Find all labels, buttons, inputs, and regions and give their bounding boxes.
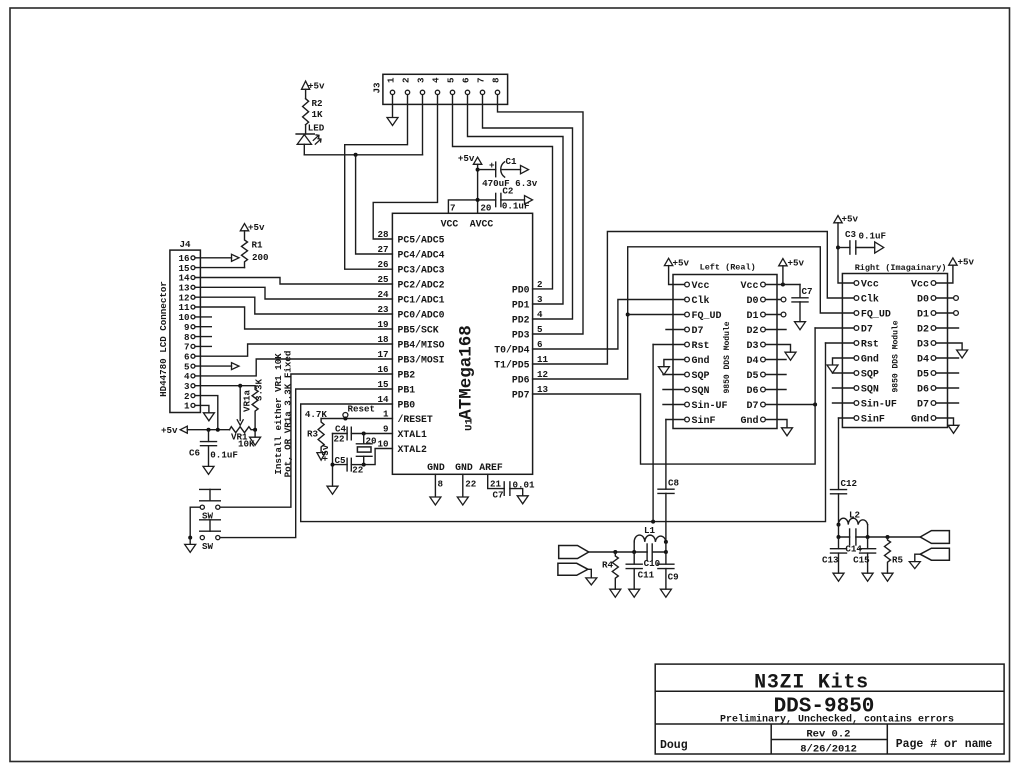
wire J3 pin1 to ground [392,95,394,117]
svg-text:22: 22 [333,434,344,445]
svg-text:D0: D0 [746,296,758,307]
svg-text:4: 4 [537,309,543,320]
svg-text:SQP: SQP [692,371,710,382]
node C6 tap [207,428,211,432]
svg-text:9850 DDS Module: 9850 DDS Module [892,320,901,392]
svg-text:PB4/MISO: PB4/MISO [398,340,445,351]
potentiometer VR1 10K body [230,427,256,433]
wire J4 pin1 to ground [195,405,209,412]
stub U2 D4 [765,359,786,361]
wire R2 bottom to LED [304,125,305,155]
svg-text:Gnd: Gnd [740,415,758,427]
wire U3 D3 to ground [936,343,962,350]
+5v supply at U2 Vcc right [782,266,784,285]
svg-text:C13: C13 [822,555,839,566]
wire L1 legs [634,542,666,552]
wire U3 SinF pin [839,417,855,419]
svg-text:Sin-UF: Sin-UF [861,399,897,411]
svg-text:+5v: +5v [308,81,325,92]
resistor VR1a 3.3K [252,386,258,430]
svg-text:SQP: SQP [861,370,879,381]
+5v rail wire [187,429,229,431]
svg-text:8: 8 [491,77,502,83]
svg-text:Rev 0.2: Rev 0.2 [806,729,850,741]
svg-text:PB0: PB0 [398,400,416,411]
svg-text:Clk: Clk [692,295,710,307]
J4 pin circles [191,256,195,408]
svg-text:27: 27 [377,244,388,255]
crystal 20 [356,434,372,465]
no-connect U2 D1 [765,314,781,316]
VR1 wiper arrow down [239,386,241,421]
J3 pin numbers 1-8 [386,77,502,83]
wire SW1 to ground bus [190,507,200,537]
wire U3 SinF down to C12 [838,418,840,489]
svg-text:8/26/2012: 8/26/2012 [800,744,857,756]
ground at U2 Gnd [658,367,669,375]
capacitor C7 0.01 at AREF [493,480,536,501]
wire U2 Gnd to ground [664,360,685,367]
svg-text:Sin-UF: Sin-UF [692,400,728,412]
wire T0/PD4 to U2 Clk [533,300,685,350]
capacitor C12 [831,478,858,494]
svg-text:Preliminary, Unchecked, contai: Preliminary, Unchecked, contains errors [720,714,954,726]
node C3 tap [836,246,840,250]
wire J4 pin2 to +5v rail [195,396,218,430]
ground at J4 pin1 [203,413,214,421]
switch SW2 [200,520,221,552]
wire J4 pin16 to R1 wiper [195,257,232,259]
svg-text:R3: R3 [307,429,319,440]
output connector tag 1 [559,546,589,559]
U3 right pin circles [931,281,936,421]
stub U3 SQP [833,372,855,374]
svg-text:D0: D0 [917,295,929,306]
9850 DDS Module U2 Left (Real) [673,275,777,429]
wire U2 D7 to data riser [765,404,815,406]
wire J3 pin7 to PD2 [483,95,573,319]
svg-text:SQN: SQN [692,386,710,397]
svg-text:PB2: PB2 [398,370,416,381]
wire node to C1 [478,169,496,171]
wire J4 pin4 to PB3 [195,359,392,376]
capacitor C15 [853,537,876,573]
svg-text:T1/PD5: T1/PD5 [494,360,529,371]
wire J4 pin6 to PB4 [195,344,392,356]
svg-text:1: 1 [184,401,190,412]
svg-text:D7: D7 [746,401,758,412]
node U2 FQ_UD tap [626,313,630,317]
svg-text:C11: C11 [638,570,655,581]
stub U2 D2 [765,329,786,331]
svg-text:5: 5 [446,77,457,83]
svg-text:Gnd: Gnd [911,414,929,426]
stub J4 pin8 [195,336,211,338]
node switch ground junction [188,536,192,540]
wire U3 Rst pin [826,342,855,344]
svg-text:0.1uF: 0.1uF [502,201,530,212]
svg-text:XTAL2: XTAL2 [398,444,428,455]
stub U3 Sin-UF [833,402,855,404]
capacitor C3 0.1uF [838,229,886,254]
ATMega right pin numbers [537,279,549,395]
node LED junction [354,153,358,157]
svg-text:PB5/SCK: PB5/SCK [398,325,439,336]
svg-text:Vcc: Vcc [911,280,929,291]
svg-text:GND: GND [455,462,473,473]
ground at AREF cap [517,496,528,504]
svg-text:D1: D1 [917,310,929,321]
switch SW1 [200,489,221,521]
svg-text:7: 7 [476,77,487,83]
wire +5v to U2 Vcc [669,266,685,285]
svg-text:26: 26 [377,259,388,270]
wire J3 pin4 to PC5 [373,95,437,239]
svg-text:C7: C7 [802,286,813,297]
svg-text:PB3/MOSI: PB3/MOSI [398,355,445,366]
svg-text:20: 20 [480,203,491,214]
ground arrow right of C3 [875,242,884,253]
wire PB0 reset bus to U3 Rst [301,343,826,522]
wire XTAL2 [364,449,393,465]
capacitor C4 22 on XTAL1 [351,433,392,435]
wire /RESET to R3 [321,418,392,420]
wire PB1 to switch SW2 [220,389,393,538]
stub U3 D2 [936,327,959,329]
wire J4 pin12 to PC0 [195,297,392,314]
svg-text:SinF: SinF [861,414,885,426]
svg-text:N3ZI Kits: N3ZI Kits [754,672,869,695]
U3 left pin circles [854,281,859,421]
capacitor C6 0.1uF [189,430,238,466]
svg-text:C12: C12 [841,478,858,489]
svg-text:Vcc: Vcc [861,280,879,291]
capacitor C14 [845,529,862,555]
ground below R5 [882,573,893,581]
svg-text:+5v: +5v [248,222,265,233]
svg-text:L2: L2 [849,510,860,521]
ground below C15 [862,573,873,581]
node U2 Rst tap on bus [651,520,655,524]
svg-text:20: 20 [366,436,377,447]
svg-text:L1: L1 [644,525,656,536]
stub U3 D7 [936,402,959,404]
+5v supply feeding U3 Vcc left and C3 [834,216,842,223]
svg-text:C7: C7 [493,490,504,501]
ground arrow right of C2 [525,196,533,205]
svg-text:SinF: SinF [692,415,716,427]
stub U2 D7 left [666,329,685,331]
svg-text:3: 3 [416,77,427,83]
stub U2 SQN [663,389,685,391]
svg-text:Reset: Reset [348,404,376,415]
wire PD7 to D7 bus [533,328,816,464]
ATMega left pin labels [398,235,445,456]
svg-text:SW: SW [202,541,214,552]
svg-text:3: 3 [537,294,543,305]
svg-text:PD6: PD6 [512,375,530,386]
stub U2 D5 [765,374,786,376]
svg-text:J3: J3 [372,82,383,94]
ground below J3 pin1 [387,118,398,126]
svg-text:/RESET: /RESET [398,414,433,425]
svg-text:D6: D6 [917,385,929,396]
svg-text:D5: D5 [746,371,758,382]
ground below C13 [833,573,844,581]
svg-text:R2: R2 [312,98,323,109]
node XTAL1 crystal tap [362,432,366,436]
ground below VR1a [254,430,256,437]
wire U2 Rst pin [653,344,685,346]
wire U2 Gnd right to ground [765,420,787,428]
ATMega left pin numbers [377,229,389,450]
ground arrow right of C1 [521,165,529,173]
pin 22 GND stub [462,474,464,496]
svg-text:GND: GND [427,462,445,473]
svg-text:PD7: PD7 [512,390,530,401]
U3 left pin labels [861,280,897,426]
svg-text:C1: C1 [506,156,518,167]
svg-text:T0/PD4: T0/PD4 [494,345,529,356]
U2 left pin labels [692,281,728,427]
stub U3 D4 [936,357,959,359]
U3 right pin labels [911,280,929,426]
svg-text:AREF: AREF [479,462,503,473]
J3 pin circles 1-8 [390,90,499,94]
output connector tag 4 [920,548,949,560]
svg-text:C6: C6 [189,448,200,459]
wire J4 pin15 to R1 bottom [195,267,245,269]
svg-text:+5v: +5v [842,214,859,225]
svg-text:PC3/ADC3: PC3/ADC3 [398,265,445,276]
node C1 tap [476,168,480,172]
node VR1 wiper tap [238,384,242,388]
wire +5v to R2 [305,89,307,98]
resistor R5 [885,537,891,573]
wire C12 to L2 left node [838,494,840,525]
svg-text:D2: D2 [746,326,758,337]
svg-text:PD3: PD3 [512,330,530,341]
svg-text:Pot, OR VR1a 3.3K Fixed: Pot, OR VR1a 3.3K Fixed [283,351,294,478]
+5v supply above C1 [473,157,481,164]
ground below C6 [203,466,214,474]
ground below C7 [795,322,806,330]
inductor L2 [839,510,868,525]
ground below switches [189,538,191,545]
svg-text:+5v: +5v [958,257,975,268]
svg-text:PC5/ADC5: PC5/ADC5 [398,235,445,246]
wire U2 SinF pin [666,419,685,421]
svg-text:10K: 10K [238,439,255,450]
svg-text:0.1uF: 0.1uF [859,231,887,242]
svg-text:1K: 1K [312,109,324,120]
svg-text:Gnd: Gnd [692,355,710,367]
svg-text:VR1a: VR1a [242,389,253,412]
wire J4 pin14 to PC2 [195,278,392,285]
svg-text:0.01: 0.01 [513,480,536,491]
IC U1 ATMega168 [392,213,532,474]
ground below R4 [610,589,621,597]
svg-text:22: 22 [465,479,476,490]
wire PD6 to U3 FQ_UD [533,247,854,379]
resistor R2 [303,99,309,125]
svg-text:U1: U1 [464,418,476,431]
node C13 [837,535,841,539]
no-connect U3 D1 [936,312,954,314]
ground rail for C4 C5 [332,434,334,487]
capacitor C8 [658,478,680,494]
svg-text:28: 28 [377,229,389,240]
svg-text:3.3K: 3.3K [254,378,265,401]
wire J4 pin11 to PB5 [195,307,392,329]
svg-text:Doug: Doug [660,739,688,752]
wire C8 to L1 right node [665,493,667,542]
stub U3 SQN [833,387,855,389]
svg-text:D4: D4 [746,356,758,367]
svg-text:PD1: PD1 [512,300,530,311]
svg-text:LED: LED [308,123,325,134]
svg-text:21: 21 [490,479,502,490]
J4 pin numbers 16..1 [178,253,190,412]
stub J4 pin10 [195,316,211,318]
wire U2 Vcc right to +5v and C7 [765,284,800,286]
svg-text:Clk: Clk [861,294,879,306]
svg-text:Rst: Rst [692,341,710,352]
wire U3 D7 pin [815,327,854,329]
svg-text:4.7K: 4.7K [305,409,328,420]
wire U3 Vcc right to +5v [936,265,953,283]
svg-text:4: 4 [431,77,442,83]
svg-text:5: 5 [537,324,543,335]
capacitor C1 470uF 6.3v polarized [482,156,538,189]
svg-text:PD2: PD2 [512,315,530,326]
resistor R4 [612,552,618,589]
connector J3 [383,74,508,104]
ground at pin 8 [430,497,441,505]
svg-text:PC0/ADC0: PC0/ADC0 [398,310,445,321]
+5v supply U2 left [664,258,672,265]
U2 right pin labels [740,281,758,427]
node L1 right [664,540,668,544]
svg-text:+5v: +5v [161,425,178,436]
svg-text:C8: C8 [668,478,680,489]
wire U3 Gnd to ground [833,358,855,365]
wire U2 SinF down to C8 [665,420,667,490]
svg-text:VCC: VCC [441,219,459,230]
wire tap to U2 FQ_UD [628,314,685,316]
capacitor C11 [626,552,654,589]
ATMega right pin labels [494,285,529,401]
svg-text:D7: D7 [917,400,929,411]
svg-text:C3: C3 [845,229,857,240]
svg-text:FQ_UD: FQ_UD [692,311,722,322]
svg-text:D1: D1 [746,311,758,322]
stub U3 D6 [936,387,959,389]
wire L2 legs [839,525,868,537]
svg-text:Right (Imagainary): Right (Imagainary) [855,263,947,273]
node XTAL2 crystal tap [362,463,366,467]
svg-text:SQN: SQN [861,385,879,396]
no-connect U3 D0 [936,297,954,299]
svg-text:D3: D3 [746,341,758,352]
node A C11 [632,550,636,554]
wire J4 pin3 to VR1 wiper node and VR1a [195,385,255,387]
stub U2 D6 [765,389,786,391]
stub J4 pin7 [195,345,211,347]
svg-text:PC4/ADC4: PC4/ADC4 [398,250,445,261]
svg-text:0.1uF: 0.1uF [210,450,238,461]
connector J4 HD44780 LCD [170,250,201,412]
svg-text:Page # or name: Page # or name [896,738,993,751]
svg-text:PC2/ADC2: PC2/ADC2 [398,280,445,291]
capacitor C10 [644,544,661,569]
svg-text:D4: D4 [917,355,929,366]
U2 right pin circles [761,282,766,422]
pin 21 AREF stub [488,474,505,488]
svg-text:FQ_UD: FQ_UD [861,310,891,321]
inductor L1 [634,525,666,542]
svg-text:C5: C5 [334,455,346,466]
svg-text:D7: D7 [692,326,704,337]
node J4 pin2 on rail [216,428,220,432]
svg-text:ATMega168: ATMega168 [457,325,477,420]
wire T1/PD5 to U3 Clk [533,232,854,365]
wire output line right [839,536,921,538]
node R4 tap [613,550,617,554]
svg-text:C15: C15 [853,555,870,566]
R1 wiper arrow [232,254,240,261]
wire J4 pin13 to PC1 [195,287,392,299]
U2 left pin circles [685,282,690,422]
svg-text:C9: C9 [668,572,679,583]
capacitor C5 22 on XTAL2 [333,455,364,476]
wire J3 pin2 to PC3 [345,95,408,270]
ground below C11 [629,589,640,597]
stub J4 pin9 [195,326,211,328]
wire J3 pin5 to PD0 [453,95,553,289]
svg-text:Vcc: Vcc [740,281,758,292]
svg-text:8: 8 [438,479,444,490]
svg-text:PC1/ADC1: PC1/ADC1 [398,295,445,306]
svg-text:PD0: PD0 [512,285,530,296]
wire PB2 to switch SW1 [220,374,393,507]
capacitor C2 0.1uF [496,186,530,212]
svg-text:9850 DDS Module: 9850 DDS Module [723,321,732,393]
stub U2 SQP [663,374,685,376]
svg-text:200: 200 [252,252,269,263]
svg-text:J4: J4 [180,239,192,250]
svg-text:+: + [489,160,495,171]
svg-text:Vcc: Vcc [692,281,710,292]
output connector tag 3 [920,531,949,544]
svg-text:R5: R5 [892,555,904,566]
svg-text:22: 22 [352,465,363,476]
svg-text:D7: D7 [861,325,873,336]
wire LED to J3 pin3 node [304,154,422,156]
svg-text:PB1: PB1 [398,385,416,396]
svg-text:XTAL1: XTAL1 [398,429,428,440]
stub U2 Sin-UF [663,404,685,406]
wire J3 pin3 to LED node [422,95,424,155]
svg-text:Rst: Rst [861,340,879,351]
svg-text:+5v: +5v [788,258,805,269]
svg-text:+5v: +5v [458,153,475,164]
wire J4 pin5 with arrow [195,365,232,367]
ground at pin 22 [457,497,468,505]
output connector tag 2 [558,563,588,575]
svg-text:+5v: +5v [673,258,690,269]
svg-text:C2: C2 [502,186,513,197]
